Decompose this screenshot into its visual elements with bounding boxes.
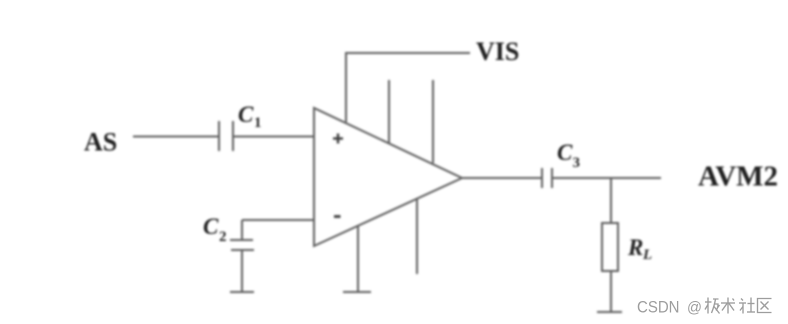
svg-text:CSDN: CSDN <box>637 298 680 317</box>
svg-text:@: @ <box>687 300 702 317</box>
